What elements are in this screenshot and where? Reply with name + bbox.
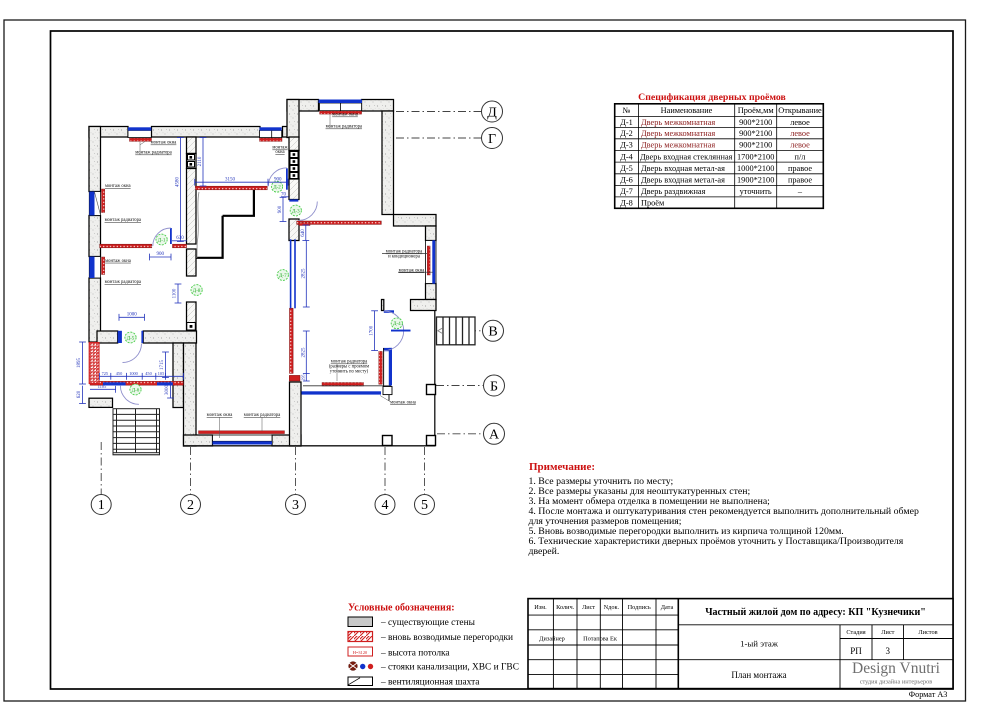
svg-text:Листов: Листов <box>918 629 937 636</box>
left wall window upper blue <box>89 192 94 216</box>
svg-text:Д-7: Д-7 <box>279 274 287 279</box>
svg-text:6. Технические характеристики: 6. Технические характеристики дверных пр… <box>529 536 904 547</box>
terrace B glazing gray line <box>303 385 391 387</box>
svg-text:1100: 1100 <box>173 288 178 298</box>
wall entry south pier <box>89 398 113 407</box>
stairs bottom-left <box>113 409 160 455</box>
terrace stub lower line <box>388 395 390 401</box>
svg-text:Формат А3: Формат А3 <box>909 690 948 699</box>
door D5 label <box>125 332 136 343</box>
wall hall right <box>382 111 394 215</box>
svg-text:А: А <box>489 428 500 443</box>
stairs near axis V <box>437 317 476 345</box>
wall top-left segment a <box>89 127 128 138</box>
svg-text:Д-1: Д-1 <box>620 118 633 127</box>
svg-text:3000: 3000 <box>165 385 170 396</box>
svg-text:105: 105 <box>158 371 164 376</box>
svg-text:900: 900 <box>278 205 283 213</box>
svg-text:монтаж окна: монтаж окна <box>399 268 426 273</box>
wall top-left segment b (between windows) <box>152 127 261 138</box>
left wall window upper diagonal <box>95 192 101 215</box>
svg-text:1700: 1700 <box>369 325 374 336</box>
svg-text:Д-8: Д-8 <box>193 289 201 294</box>
svg-text:Д-6: Д-6 <box>620 176 633 185</box>
red strip living south window <box>199 431 285 434</box>
wall kitchen/hall vent segment <box>289 151 299 180</box>
door D4 label <box>391 318 402 329</box>
svg-text:монтаж радиатора: монтаж радиатора <box>326 125 363 130</box>
red hatch new partition entry <box>89 343 99 384</box>
terrace stub below blue partition <box>383 387 392 395</box>
living south window blue <box>213 441 273 444</box>
wall bedroom east (vent wall) <box>187 137 197 154</box>
dim 1895 line <box>82 342 84 384</box>
svg-text:Колич.: Колич. <box>556 604 575 611</box>
door D4 jamb stub <box>384 310 394 313</box>
wall left lower <box>89 278 101 342</box>
axis 4 line <box>384 447 386 494</box>
svg-text:Дизайнер: Дизайнер <box>539 636 565 643</box>
east glazing blue line b <box>294 239 296 308</box>
red strip terrace B axis <box>322 383 364 387</box>
svg-text:Дверь раздвижная: Дверь раздвижная <box>641 187 706 196</box>
axis circle 1 <box>91 495 111 515</box>
window1 frame <box>128 130 151 137</box>
svg-text:3: 3 <box>292 498 299 513</box>
svg-text:Д-5: Д-5 <box>127 336 135 341</box>
vent dot kitchen 2 <box>293 160 296 163</box>
terrace column B-axis <box>427 385 436 395</box>
svg-text:Д-2: Д-2 <box>620 129 633 138</box>
dim 2110 line <box>202 138 204 187</box>
red partition living north <box>297 221 382 224</box>
svg-text:1000*2100: 1000*2100 <box>737 164 774 173</box>
svg-text:900*2100: 900*2100 <box>739 141 772 150</box>
door D6 blue sill a <box>103 382 126 385</box>
axis circle G <box>482 128 503 149</box>
svg-text:1000: 1000 <box>129 371 138 376</box>
svg-text:1715: 1715 <box>160 360 165 371</box>
svg-text:Лист: Лист <box>582 604 595 611</box>
red block east glazing south <box>289 375 300 381</box>
svg-text:уточнить по месту): уточнить по месту) <box>330 370 369 375</box>
svg-text:Дверь входная стеклянная: Дверь входная стеклянная <box>640 152 733 161</box>
wall hall top right seg <box>362 100 394 112</box>
axis 1 line <box>100 442 102 494</box>
wall dining west pier <box>289 219 299 241</box>
vent dot kitchen 4 <box>293 174 296 177</box>
svg-text:правое: правое <box>788 176 812 185</box>
legend existing walls swatch <box>348 617 373 627</box>
wall entry north west seg <box>97 331 118 343</box>
vent dot kitchen 3 <box>293 167 296 170</box>
door D4 arc <box>384 311 404 351</box>
svg-text:Д-5: Д-5 <box>620 164 633 173</box>
door D3 arc <box>298 202 317 221</box>
left wall window lower blue <box>89 257 94 279</box>
svg-text:1105: 1105 <box>98 384 106 389</box>
svg-text:1: 1 <box>98 498 105 513</box>
terrace east line <box>434 311 436 446</box>
dim 1715 line <box>165 352 167 378</box>
svg-text:монтаж окна: монтаж окна <box>105 259 132 264</box>
wall entry north east seg <box>143 331 196 343</box>
door D1 leaf <box>170 228 172 244</box>
svg-text:2110: 2110 <box>198 156 203 166</box>
svg-text:дверей.: дверей. <box>529 546 560 557</box>
svg-text:1700*2100: 1700*2100 <box>737 152 774 161</box>
svg-text:Г: Г <box>488 132 496 147</box>
svg-text:п/л: п/л <box>795 152 806 161</box>
vent dot bedroom 2 <box>190 163 193 166</box>
red partition east glazing <box>290 308 294 373</box>
axis V line <box>437 330 482 332</box>
wall right niche lower <box>426 284 437 300</box>
svg-text:Лист: Лист <box>881 629 894 636</box>
dim 630 line <box>172 240 187 242</box>
svg-text:Проём,мм: Проём,мм <box>738 106 775 115</box>
red strip under window1 <box>130 138 152 141</box>
axis 3 line <box>295 447 297 494</box>
axis G line <box>396 137 481 139</box>
svg-text:Д: Д <box>487 105 497 120</box>
svg-text:– вновь возводимые перегородки: – вновь возводимые перегородки <box>380 633 513 643</box>
red strip under window2 <box>260 138 283 141</box>
wall right niche upper <box>426 226 437 241</box>
vent box kitchen wall 3 <box>290 166 298 172</box>
terrace blue partition left edge <box>383 348 385 386</box>
window2 blue <box>260 127 282 130</box>
terrace blue partition top bar <box>383 348 392 351</box>
svg-text:монтаж окна: монтаж окна <box>151 141 178 146</box>
svg-text:студия дизайна интерьеров: студия дизайна интерьеров <box>860 679 933 686</box>
red strip entry south <box>90 381 183 385</box>
axis B line <box>436 385 483 387</box>
svg-text:уточнить: уточнить <box>740 187 772 196</box>
axis circle V <box>483 320 504 341</box>
hall window blue <box>319 100 363 104</box>
axis circle A <box>484 423 505 444</box>
svg-text:Дверь межкомнатная: Дверь межкомнатная <box>641 129 715 138</box>
dim 620 line <box>82 386 84 404</box>
axis circle B <box>484 375 505 396</box>
niche window red strip <box>427 246 430 275</box>
red strip left wall window lower <box>102 257 105 275</box>
svg-text:Наименование: Наименование <box>661 106 713 115</box>
svg-text:Д-7: Д-7 <box>620 187 633 196</box>
east glazing blue line a <box>290 239 292 308</box>
dim 900 D3 line <box>282 197 284 221</box>
svg-text:630: 630 <box>176 236 184 241</box>
legend new partitions swatch <box>348 632 373 642</box>
dim 2825 upper line <box>305 241 307 308</box>
svg-text:2: 2 <box>187 498 194 513</box>
dim 70 line <box>281 196 289 198</box>
axis circle D <box>482 101 503 122</box>
svg-text:Спецификация дверных проёмов: Спецификация дверных проёмов <box>638 92 786 103</box>
svg-text:Д-2: Д-2 <box>273 186 281 191</box>
vent box bedroom wall 1 <box>188 155 195 161</box>
svg-text:Д-4: Д-4 <box>393 322 401 327</box>
door D2 arc <box>268 168 287 187</box>
dim chain entry line <box>99 375 183 377</box>
svg-text:295: 295 <box>300 375 305 381</box>
vent dot bedroom 1 <box>190 156 193 159</box>
svg-text:Потапова Ек: Потапова Ек <box>583 636 618 643</box>
wall step right <box>394 215 437 227</box>
dim 1100 line <box>177 284 179 303</box>
svg-text:левое: левое <box>790 141 810 150</box>
left wall window lower frame <box>89 257 100 279</box>
interior stair outline <box>196 190 255 258</box>
spec table grid <box>615 104 824 209</box>
window2 mullion <box>271 130 273 137</box>
svg-text:Примечание:: Примечание: <box>529 461 595 473</box>
svg-text:Условные обозначения:: Условные обозначения: <box>348 603 455 614</box>
svg-text:Изм.: Изм. <box>534 604 547 611</box>
svg-text:Nдок.: Nдок. <box>604 604 620 611</box>
axis 5 line <box>424 447 426 494</box>
axis A line <box>437 433 483 435</box>
svg-text:Дверь межкомнатная: Дверь межкомнатная <box>641 118 715 127</box>
vent box kitchen wall 4 <box>290 173 298 179</box>
svg-text:4: 4 <box>382 498 389 513</box>
door D8 label <box>191 285 202 296</box>
svg-text:5: 5 <box>421 498 428 513</box>
svg-text:3: 3 <box>886 646 891 656</box>
vent box kitchen wall 2 <box>290 159 298 165</box>
stairs V direction arrow <box>438 328 442 333</box>
svg-text:монтаж окна: монтаж окна <box>207 413 234 418</box>
door D1 arc <box>153 228 171 246</box>
svg-text:3150: 3150 <box>225 178 236 183</box>
svg-text:– высота потолка: – высота потолка <box>380 648 450 658</box>
door D6 label <box>130 384 141 395</box>
svg-text:640: 640 <box>301 229 306 237</box>
wall left upper <box>89 127 101 192</box>
terrace column axis5 <box>427 436 436 446</box>
svg-text:правое: правое <box>788 164 812 173</box>
axis 2 line <box>190 447 192 494</box>
vent box kitchen wall 1 <box>290 152 298 158</box>
wall hall left pier <box>287 100 299 138</box>
svg-text:Д-3: Д-3 <box>292 209 300 214</box>
door D2 label <box>271 181 282 192</box>
svg-text:450: 450 <box>145 371 151 376</box>
legend risers dots <box>349 662 358 671</box>
wall entry east <box>173 343 184 408</box>
niche window frame <box>426 241 437 284</box>
svg-text:H=3120: H=3120 <box>353 650 368 655</box>
vent dot corridor <box>190 325 193 328</box>
dim 3000 line <box>170 381 172 398</box>
title block grid <box>528 599 953 689</box>
red partition kitchen divider <box>195 186 267 190</box>
svg-text:1895: 1895 <box>77 358 82 369</box>
svg-text:левое: левое <box>790 118 810 127</box>
wall hall top left seg <box>287 100 319 112</box>
door D3 label <box>290 205 301 216</box>
interior stair break line <box>197 192 199 258</box>
svg-text:Дверь межкомнатная: Дверь межкомнатная <box>641 141 715 150</box>
svg-text:В: В <box>488 325 497 340</box>
wall top-left segment c <box>283 127 288 138</box>
svg-text:монтаж радиатора: монтаж радиатора <box>244 413 281 418</box>
vent box corridor <box>187 323 196 331</box>
wall corridor east lower <box>187 302 197 331</box>
vent box wall segment <box>187 154 197 169</box>
svg-text:окна: окна <box>275 150 285 155</box>
wall living east <box>290 382 302 446</box>
door D5 arc <box>123 344 142 363</box>
dim 3150-900 line <box>195 181 288 183</box>
legend ceiling height swatch <box>348 647 373 656</box>
axis circle 5 <box>415 495 435 515</box>
svg-text:725: 725 <box>102 371 108 376</box>
axis D line <box>396 111 481 113</box>
window2 frame <box>260 130 282 137</box>
dim 2825 lower line <box>305 331 307 374</box>
svg-text:и кондиционера: и кондиционера <box>388 254 421 259</box>
dim 640 line <box>305 225 307 241</box>
door D6 arc <box>120 386 138 405</box>
door D1 label <box>156 234 167 245</box>
title block outer box <box>528 599 953 689</box>
red strip terrace vertical <box>379 351 383 384</box>
vent dot kitchen 1 <box>293 153 296 156</box>
wall corridor east upper <box>187 249 197 276</box>
svg-text:2825: 2825 <box>301 347 306 358</box>
axis circle 3 <box>286 495 306 515</box>
wall niche bottom <box>411 300 437 311</box>
vent box bedroom wall 2 <box>188 162 195 168</box>
terrace column axis4 <box>383 436 393 446</box>
door D4 leaf <box>391 330 411 332</box>
svg-text:Открывание: Открывание <box>778 106 822 115</box>
hall window mullion <box>340 103 342 111</box>
terrace B glazing blue <box>302 391 382 394</box>
svg-text:1-ый этаж: 1-ый этаж <box>740 639 779 649</box>
door D6 blue sill b <box>157 382 173 385</box>
dim 900 D1 line <box>150 256 172 258</box>
red partition bedroom south <box>100 244 152 248</box>
wall bedroom east lower <box>187 169 197 245</box>
axis circle 2 <box>181 495 201 515</box>
svg-text:Дверь входная метал-ая: Дверь входная метал-ая <box>641 164 725 173</box>
svg-text:Частный жилой дом по адресу: К: Частный жилой дом по адресу: КП "Кузнечи… <box>705 607 926 618</box>
title block small headers <box>534 604 937 643</box>
svg-text:монтаж радиатора: монтаж радиатора <box>105 218 142 223</box>
svg-text:– стояки канализации, ХВС и ГВ: – стояки канализации, ХВС и ГВС <box>380 663 519 673</box>
wall living south west seg <box>184 435 213 446</box>
hall window frame <box>320 103 362 111</box>
svg-text:900*2100: 900*2100 <box>739 129 772 138</box>
svg-text:монтаж радиатора: монтаж радиатора <box>135 151 172 156</box>
svg-text:монтаж окна: монтаж окна <box>105 184 132 189</box>
svg-text:РП: РП <box>850 646 862 656</box>
svg-text:900: 900 <box>274 178 282 183</box>
legend vent shaft swatch <box>348 677 373 686</box>
red strip under hall window <box>320 111 362 114</box>
door D3 leaf <box>289 199 298 201</box>
svg-text:620: 620 <box>77 390 82 398</box>
svg-text:900: 900 <box>157 252 165 257</box>
terrace blue partition right bar <box>389 348 392 386</box>
svg-text:1000: 1000 <box>127 313 138 318</box>
svg-text:Д-8: Д-8 <box>620 199 633 208</box>
niche window blue <box>432 240 435 283</box>
dim 1700 line <box>374 311 376 351</box>
red strip left wall window upper <box>102 189 105 213</box>
door D5 jamb b <box>141 331 143 343</box>
dim 1000 corridor line <box>119 316 145 318</box>
terrace south line <box>184 445 436 447</box>
wall left mid <box>89 216 101 257</box>
svg-text:монтаж окна: монтаж окна <box>332 113 359 118</box>
svg-text:Д-3: Д-3 <box>620 141 633 150</box>
wall kitchen/hall divider mid <box>289 179 299 200</box>
axis circle 4 <box>375 495 395 515</box>
svg-text:Д-1: Д-1 <box>158 238 166 243</box>
svg-text:Подпись: Подпись <box>628 604 651 611</box>
svg-text:Д-4: Д-4 <box>620 152 633 161</box>
svg-text:– вентиляционная шахта: – вентиляционная шахта <box>380 677 480 687</box>
wall kitchen/hall divider upper <box>289 137 299 151</box>
svg-text:Проём: Проём <box>641 199 665 208</box>
svg-text:План монтажа: План монтажа <box>731 670 786 680</box>
svg-text:–: – <box>797 187 803 196</box>
red strip dining NE corner <box>299 222 310 225</box>
svg-text:Д-6: Д-6 <box>132 388 140 393</box>
svg-text:монтаж окна: монтаж окна <box>390 400 417 405</box>
svg-text:Б: Б <box>490 379 498 394</box>
door D2 leaf <box>286 168 288 189</box>
svg-text:№: № <box>623 106 631 115</box>
door D7 label <box>277 270 288 281</box>
svg-text:1900*2100: 1900*2100 <box>737 176 774 185</box>
svg-text:2825: 2825 <box>301 268 306 279</box>
svg-text:450: 450 <box>116 371 122 376</box>
living south window frame <box>213 435 273 441</box>
window1 blue <box>128 127 151 130</box>
svg-text:Стадия: Стадия <box>846 629 865 636</box>
wall niche bottom stub <box>382 300 384 311</box>
wall living west <box>184 343 197 446</box>
svg-text:Дата: Дата <box>661 604 674 611</box>
svg-text:левое: левое <box>790 129 810 138</box>
svg-text:70: 70 <box>281 193 287 198</box>
left wall window upper frame <box>89 192 100 216</box>
svg-text:Дверь входная метал-ая: Дверь входная метал-ая <box>641 176 725 185</box>
svg-text:Design Vnutri: Design Vnutri <box>852 660 941 677</box>
dim 4580 line <box>179 138 181 242</box>
wall living south east seg <box>272 435 301 446</box>
red partition bedroom south right <box>173 244 187 248</box>
svg-text:4580: 4580 <box>175 177 180 188</box>
svg-text:900*2100: 900*2100 <box>739 118 772 127</box>
dim 295 line <box>305 374 307 382</box>
door D5 jamb a <box>118 331 122 343</box>
svg-text:– существующие стены: – существующие стены <box>380 618 476 628</box>
svg-text:монтаж радиатора: монтаж радиатора <box>105 280 142 285</box>
dim 1105 line <box>90 388 116 390</box>
